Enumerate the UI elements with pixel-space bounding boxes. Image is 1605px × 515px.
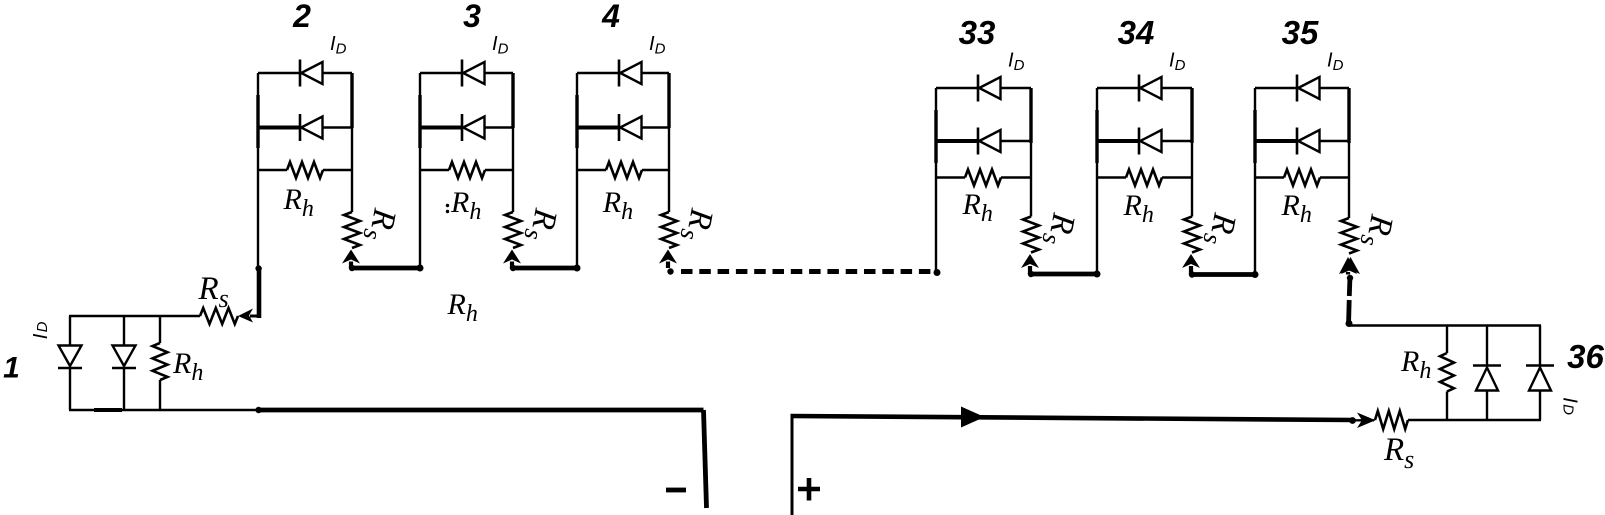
wire cell 4 left rail overdraw (575, 95, 578, 148)
wire cell 3 middle branch (420, 126, 462, 130)
wire cell 3 left rail overdraw (418, 95, 421, 148)
diode D33b (977, 128, 980, 155)
diode D4b (618, 114, 621, 141)
node cell4 output (667, 268, 673, 274)
wire cell 34 right rail (1191, 88, 1193, 217)
diode D35a (1296, 75, 1299, 102)
current arrow cell 3 (503, 250, 521, 264)
resistor Rh33 (936, 176, 965, 178)
svg-text:I: I (1559, 397, 1581, 403)
node junction cell34-cell35 a (1189, 271, 1195, 277)
current arrow positive bus (961, 407, 985, 428)
wire cell 2 right rail (351, 73, 353, 212)
wire cell 4 middle branch (577, 126, 619, 130)
wire cell 35 middle branch (1255, 139, 1297, 143)
resistor Rs36 (1375, 411, 1408, 429)
svg-text:D: D (1560, 404, 1577, 415)
wire cell 34 top branch (1097, 87, 1139, 89)
node junction cell34-cell35 b (1252, 271, 1259, 278)
wire cell 33 right rail (1030, 88, 1032, 217)
diode D35b (1296, 128, 1299, 155)
wire cell 1 bottom rail (69, 409, 258, 411)
diode D4a (618, 60, 621, 87)
wire cell 34 right rail overdraw (1190, 88, 1193, 143)
diode D3b (461, 114, 464, 141)
diode D2b (299, 114, 302, 141)
resistor Rh1 (159, 316, 161, 343)
diode D1a (69, 316, 71, 346)
wire series link cell33-cell34 (1030, 272, 1097, 277)
diode D2a (299, 60, 302, 87)
node cell36 input (1346, 320, 1353, 327)
label plus terminal (798, 487, 820, 492)
wire series link cell3-cell4 (512, 266, 577, 271)
resistor Rs34 (1184, 217, 1200, 253)
wire cell 4 top branch (577, 72, 619, 74)
wire cell 4 right rail (668, 73, 670, 212)
svg-text:3: 3 (463, 0, 481, 34)
wire cell 34 left rail (1096, 88, 1098, 274)
resistor Rs2 (344, 212, 360, 248)
svg-text:33: 33 (959, 14, 996, 51)
wire cell 35 left rail (1254, 88, 1256, 275)
current arrow cell 33 (1021, 254, 1039, 268)
wire cell 36 bottom rail (1408, 419, 1541, 421)
resistor Rh4 (577, 169, 606, 171)
wire cell 2 right rail overdraw (350, 73, 353, 128)
wire cell 35 left rail overdraw (1253, 110, 1256, 163)
diode D3a (461, 60, 464, 87)
resistor Rs4 (661, 212, 677, 248)
diode D34b (1138, 128, 1141, 155)
resistor Rs3 (505, 212, 521, 248)
wire cell 3 right rail (512, 73, 514, 212)
stray colon mark (446, 204, 449, 207)
wire link cell35-cell36 lower (1346, 300, 1351, 322)
resistor Rs1 (200, 308, 238, 324)
node junction cell2-cell3 a (349, 265, 355, 271)
wire cell 2 top branch (258, 72, 300, 74)
wire cell 2 left rail (257, 73, 259, 268)
svg-text:34: 34 (1118, 14, 1155, 51)
wire bus to arrow (1352, 419, 1374, 421)
label minus terminal (666, 488, 686, 493)
wire cell 34 left rail overdraw (1095, 110, 1098, 163)
current arrow cell 1 (points left) (238, 309, 253, 323)
wire cell 36 top rail (1349, 324, 1541, 326)
wire cell 35 top branch (1255, 87, 1297, 89)
wire negative terminal drop (704, 410, 707, 508)
wire dashed link cell4-cell33 (681, 269, 937, 274)
diode D1b (123, 316, 125, 346)
wire link cell35-cell36 upper (1347, 276, 1352, 296)
wire cell 3 left rail (419, 73, 421, 268)
node cell2 rail junction (255, 265, 261, 271)
node link upper (1347, 275, 1353, 281)
node bus before Rs36 (1349, 417, 1356, 424)
wire cell 3 right rail overdraw (511, 73, 514, 128)
svg-text:36: 36 (1567, 338, 1604, 375)
node junction cell33-cell34 a (1028, 271, 1034, 277)
diode D34a (1138, 75, 1141, 102)
svg-text:2: 2 (292, 0, 311, 34)
wire series link cell2-cell3 (351, 266, 420, 271)
wire cell 33 top branch (936, 87, 978, 89)
wire cell 4 right rail overdraw (667, 73, 670, 128)
wire positive bus (791, 416, 1354, 420)
resistor Rs35 (1341, 218, 1357, 254)
svg-text:1: 1 (3, 352, 20, 385)
wire negative bus thick (258, 408, 704, 413)
wire cell 2 middle branch (258, 126, 300, 130)
wire thick drop from cell 2 rail (257, 268, 262, 318)
wire series link cell34-cell35 (1191, 272, 1255, 277)
wire cell 33 middle branch (936, 139, 978, 143)
resistor Rs33 (1023, 217, 1039, 253)
wire positive terminal riser (791, 417, 794, 515)
svg-text:35: 35 (1282, 14, 1319, 51)
wire cell 33 left rail overdraw (934, 110, 937, 163)
svg-text:D: D (34, 321, 51, 332)
current arrow cell 34 (1182, 254, 1200, 268)
wire cell 35 right rail overdraw (1347, 88, 1350, 143)
current arrow cell 2 (342, 250, 360, 264)
node junction cell33-cell34 b (1094, 271, 1101, 278)
diode D36a (1486, 326, 1488, 366)
current arrow cell 35 (1339, 257, 1357, 274)
wire cell 4 left rail (576, 73, 578, 268)
current arrow into Rs36 (1357, 413, 1376, 429)
node junction cell2-cell3 b (417, 265, 424, 272)
current arrow cell 35 output (1341, 257, 1360, 274)
svg-text:I: I (30, 333, 52, 339)
wire cell 34 middle branch (1097, 139, 1139, 143)
svg-text:4: 4 (601, 0, 620, 34)
resistor Rh36 (1446, 326, 1448, 354)
resistor Rh35 (1255, 176, 1284, 178)
wire cell 33 right rail overdraw (1029, 88, 1032, 143)
node junction cell3-cell4 a (510, 265, 516, 271)
node junction cell3-cell4 b (574, 265, 581, 272)
resistor Rh34 (1097, 176, 1126, 178)
node cell33 input (934, 269, 941, 276)
diode D36b (1539, 326, 1541, 366)
wire cell 2 left rail overdraw (256, 95, 259, 148)
resistor Rh3 (420, 169, 449, 171)
wire cell 35 right rail (1348, 88, 1350, 218)
diode D33a (977, 75, 980, 102)
wire cell 1 top rail (69, 315, 200, 317)
node negative bus junction (255, 407, 261, 413)
resistor Rh2 (258, 169, 287, 171)
wire negative bus thin overdraw (94, 408, 122, 412)
wire cell 33 left rail (935, 88, 937, 274)
wire cell 3 top branch (420, 72, 462, 74)
current arrow cell 4 (659, 250, 677, 264)
